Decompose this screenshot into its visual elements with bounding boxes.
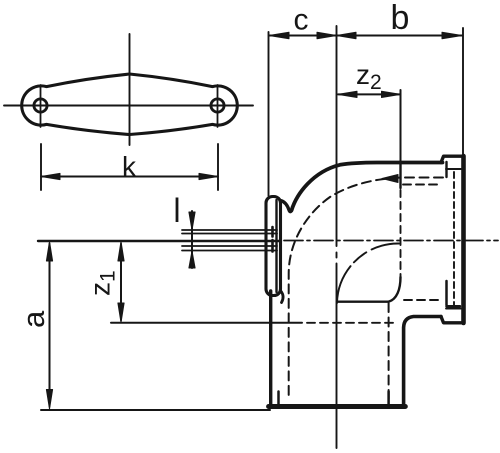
extension/centerline vertical of bottom socket [336, 26, 338, 448]
dimension z2 line [338, 93, 400, 95]
z2 gauge line dashed part [400, 190, 402, 277]
svg-text:z1: z1 [85, 270, 120, 296]
svg-text:z2: z2 [356, 59, 382, 94]
right socket bead [441, 156, 463, 323]
extension line left (flange face) [268, 32, 270, 196]
socket mouth counterbore top [445, 162, 447, 177]
dimension a line [49, 244, 51, 406]
dimension l arrow top [189, 212, 195, 230]
elbow outer profile: back arc to socket top [292, 163, 443, 211]
bottom mouth chamfer mark right [387, 392, 390, 405]
bottom mouth chamfer mark left [277, 392, 280, 405]
throat arc thin solid [337, 243, 399, 303]
bolt hole left [34, 99, 47, 112]
bead inner top chamfer line [446, 168, 461, 170]
dimension l line [191, 211, 193, 268]
z2 gauge line solid part [399, 162, 401, 188]
bottom socket right bore dashed [388, 303, 390, 399]
elbow outer profile: dip at flange [281, 201, 292, 212]
bore line 4 [182, 250, 277, 252]
bottom socket left outer wall [269, 291, 272, 404]
dimension z2 arrow right [382, 91, 401, 97]
bore line 2 [182, 233, 277, 235]
bolt hole left centerline [40, 85, 42, 127]
z2 gauge arrowhead on thread line [382, 175, 398, 183]
lower thread line near mouth bottom (dashed) [404, 299, 441, 301]
z1 plane line dashed inside body [307, 322, 397, 324]
flange edge view outline [266, 197, 281, 296]
dimension k arrow right [199, 173, 218, 179]
flange inner face line [275, 200, 277, 292]
dimension k arrow left [41, 173, 60, 179]
svg-text:b: b [391, 0, 410, 37]
bolt hole right centerline [217, 85, 219, 127]
wall plate front view: vertical centerline [129, 34, 131, 145]
bead inner bottom chamfer line [446, 308, 461, 310]
extension line right (socket end face) [462, 28, 464, 154]
dimension a arrow bottom [46, 390, 52, 410]
z2 extension line into socket [400, 90, 402, 162]
svg-text:k: k [122, 151, 137, 182]
horizontal centerline through side opening (solid extension part) [38, 240, 281, 242]
dimension l arrow bottom [189, 251, 195, 268]
dimension z1 arrow bottom [118, 303, 124, 323]
bead inner dashed thread line [453, 172, 455, 306]
dimension k extension line left [40, 144, 42, 190]
bore line 3 [182, 245, 277, 247]
svg-text:c: c [294, 4, 309, 37]
flange to wall transition [281, 291, 283, 303]
flange hub marks [271, 227, 274, 252]
internal shoulder solid line [337, 277, 401, 302]
dimension z2 arrow left [338, 91, 357, 97]
dimension k line [41, 176, 218, 178]
horizontal centerline inside body (dash-dot) [284, 240, 498, 242]
dimension a arrow top [46, 242, 52, 262]
dimension c/b line [269, 35, 462, 37]
bolt hole right [211, 99, 224, 112]
svg-text:a: a [16, 310, 51, 328]
wall plate outline [22, 74, 238, 135]
dimension z1 arrow top [118, 242, 124, 262]
socket mouth counterbore bottom [447, 281, 461, 306]
dimension k extension line right [217, 144, 219, 190]
dimension z1 line [120, 244, 122, 320]
hidden bore arc around the back (dashed) [289, 178, 443, 400]
label l [176, 198, 179, 223]
socket end face (thick) [461, 156, 466, 323]
dimension c arrow left [269, 32, 289, 39]
bottom face [269, 404, 406, 409]
wall plate front view: horizontal centerline [4, 105, 253, 107]
bottom face extension line [41, 409, 270, 411]
second thread line near mouth top (dashed) [403, 184, 442, 186]
bore line 1 [182, 229, 277, 231]
dimension b arrow right [442, 32, 462, 39]
z1 plane line solid part [111, 322, 302, 324]
right socket bottom surface and inner corner fillet [404, 317, 441, 405]
dimension c arrow right / b arrow left (bowtie) [317, 32, 356, 39]
